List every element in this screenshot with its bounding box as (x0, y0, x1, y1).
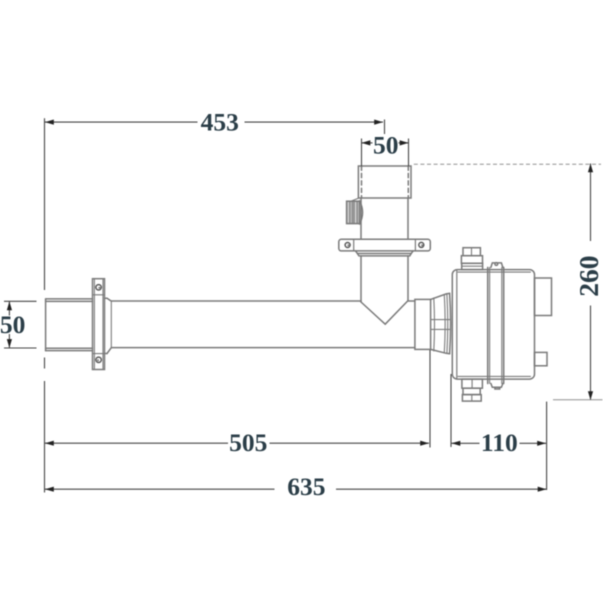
valve body (452, 270, 534, 380)
dim 453 line (45, 121, 198, 123)
flue pipe hidden bore (dashed) (361, 166, 363, 198)
dim 50 left line (8, 301, 10, 315)
dim 50 top line (362, 142, 373, 144)
left flange bottom bolt (96, 357, 101, 362)
arrowheads 260 (588, 164, 593, 173)
coupling nut outline (431, 293, 450, 299)
left pipe inner bore (46, 300, 93, 302)
band bottom cap (491, 384, 503, 388)
arrowheads 635 (45, 487, 54, 492)
boss taper right of left flange (105, 297, 108, 299)
clamp band (487, 267, 489, 383)
coupling nipple (415, 299, 431, 349)
horizontal pipe top edge (111, 300, 361, 302)
dim 50 top extensions (361, 139, 363, 167)
flange socket step 1 (356, 251, 414, 254)
funnel V right (385, 301, 408, 325)
svg-text:110: 110 (481, 428, 518, 457)
svg-text:635: 635 (287, 472, 325, 501)
right small box (535, 352, 548, 365)
horizontal pipe bottom edge (111, 347, 415, 349)
dim 110 left extension (450, 374, 452, 447)
bottom fitting stack (462, 379, 483, 388)
arrowheads 50 left (7, 301, 12, 310)
arrowheads 453 (45, 120, 54, 125)
flue flange bar (339, 239, 431, 251)
nut facet horizontals (431, 319, 450, 321)
arrowheads 110 (452, 441, 461, 446)
flue collar rectangle (358, 166, 411, 198)
svg-text:50: 50 (0, 310, 25, 339)
svg-text:505: 505 (229, 428, 267, 457)
dim 110 line (452, 442, 480, 444)
dim 260 line (590, 164, 592, 242)
right connection box (535, 278, 552, 316)
dim 505 line (45, 442, 228, 444)
vertical pipe lower edges (360, 256, 362, 302)
left pipe end cap (45, 299, 47, 351)
dim 635 line (45, 488, 275, 490)
top fitting stack (463, 248, 480, 256)
left master extension line (44, 118, 46, 290)
flange socket step 2 (357, 254, 411, 256)
right step extension line (546, 402, 548, 490)
arrowheads 50 top (362, 140, 371, 145)
band top cap (491, 263, 503, 268)
260 bottom reference line (553, 399, 603, 401)
nut facet arcs (433, 298, 436, 351)
test port boss arc (360, 201, 363, 224)
dim 505 right extension (429, 350, 431, 448)
centerline dashed to 260 (414, 163, 601, 165)
funnel V left (361, 302, 385, 324)
collar corner diagonal (351, 198, 359, 201)
flue flange right bolt (419, 242, 424, 247)
test port ribbed cap (347, 201, 360, 223)
svg-text:50: 50 (373, 130, 399, 159)
dim 453 right extension (384, 120, 386, 135)
dim 50 left extensions (4, 300, 37, 302)
svg-text:453: 453 (201, 107, 239, 136)
vertical pipe upper edges (360, 198, 362, 239)
left flange top bolt (96, 285, 101, 290)
flue flange left bolt (345, 243, 350, 248)
arrowheads 505 (45, 441, 54, 446)
svg-text:260: 260 (573, 255, 603, 296)
left flange plate (93, 279, 105, 370)
left pipe outer tube (46, 298, 93, 300)
